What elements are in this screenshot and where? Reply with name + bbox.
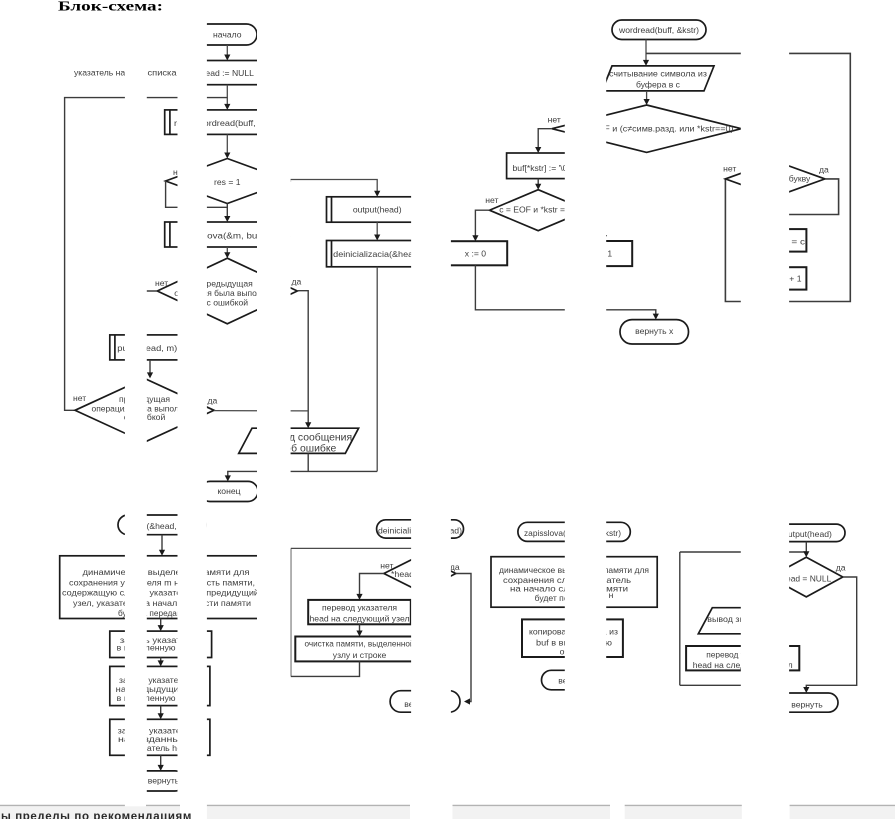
io parallelogram считывание символа: [602, 66, 714, 91]
wire oval down: [645, 40, 647, 63]
wire -> B1: [160, 619, 162, 629]
decision diamond4: [75, 378, 214, 442]
loop top horizontal D5: [680, 551, 807, 553]
wire +1 box -> return loop (hidden): [776, 290, 778, 302]
big process box D3: [491, 557, 657, 608]
wire box2 -> res diamond: [226, 134, 228, 155]
svg-text:deinicializacia(&head): deinicializacia(&head): [333, 249, 421, 259]
нет wire diamond2 -> push box (elbow hidden): [130, 291, 157, 332]
arrowheads: [127, 55, 810, 771]
да loop букву -> = c box: [777, 179, 839, 226]
да wire res -> output box: [289, 180, 377, 194]
svg-text:сохранения указателя m на обла: сохранения указателя m на область памяти…: [69, 578, 255, 588]
нет wire res diamond left: [166, 181, 228, 207]
join wire to конец: [228, 471, 377, 478]
wire parallelogram down: [307, 453, 309, 471]
stripe S5: [565, 18, 606, 806]
call box deinicializacia(&head): [327, 241, 428, 267]
svg-text:букву: букву: [789, 174, 811, 184]
нет wire -> box1: [360, 574, 384, 597]
stripe S2: [178, 18, 207, 806]
wire start->box1: [226, 45, 228, 57]
call box res = wordread: [165, 110, 288, 134]
call box output(head): [327, 197, 428, 222]
loop wire from diamond4 нет: up left side: [65, 98, 228, 411]
decision букву: [725, 161, 825, 197]
decision diamond2 предыдущая операция: [157, 258, 297, 324]
svg-text:очистка памяти, выделенной: очистка памяти, выделенной: [305, 639, 415, 649]
нет wire big diamond -> buf box: [538, 129, 552, 150]
decision c = EOF: [490, 190, 588, 231]
process box перевод head D5: [686, 646, 799, 670]
svg-text:узел, указатель на начало обла: узел, указатель на начало области памяти: [73, 598, 251, 608]
svg-text:нет: нет: [73, 393, 86, 403]
process box head := NULL: [190, 61, 265, 85]
decision res = 1: [166, 159, 289, 204]
big return loop right side: [646, 53, 850, 301]
terminator вернуть D5: [776, 693, 838, 712]
terminator output(head): [770, 524, 845, 542]
wire -> B3: [160, 706, 162, 717]
svg-text:output(head): output(head): [783, 529, 832, 539]
long vertical from deinicializacia down: [376, 267, 378, 472]
terminator zapis(&head, m): [118, 515, 206, 535]
да wire c=EOF -> x:=1 (hidden): [587, 210, 604, 241]
svg-text:об ошибке: об ошибке: [285, 443, 336, 455]
да wire -> вернуть: [456, 574, 471, 702]
svg-text:начало: начало: [213, 30, 242, 40]
left loop vertical D2: [290, 548, 292, 676]
terminator вернуть D2: [390, 691, 460, 713]
svg-text:x := 0: x := 0: [465, 249, 486, 259]
process box копирование: [522, 619, 623, 657]
io parallelogram вывод значения: [698, 608, 782, 634]
process box B3: [110, 719, 210, 755]
terminator вернуть D3: [542, 670, 605, 690]
wire oval->diamond (hidden): [419, 538, 421, 553]
decision head = NULL: [770, 557, 843, 597]
process box B2: [110, 666, 210, 705]
wire output -> deinicializacia: [376, 222, 378, 237]
big decision diamond: [552, 105, 741, 152]
svg-text:н: н: [609, 590, 614, 600]
svg-text:head на следующий узел: head на следующий узел: [310, 614, 410, 624]
process box kstr + 1: [748, 267, 807, 289]
нет wire D5 (hidden): [743, 577, 770, 605]
svg-text:да: да: [292, 277, 302, 287]
terminator zapisslova(&m, buf, &kstr): [518, 522, 630, 541]
wire =c -> +1 box (hidden): [776, 252, 778, 264]
process box x := 1: [576, 241, 632, 266]
svg-text:нет: нет: [548, 115, 561, 125]
wire -> вернуть: [160, 755, 162, 768]
stripe S4: [411, 18, 451, 806]
svg-text:динамическое выделение памяти: динамическое выделение памяти для: [83, 567, 250, 577]
svg-text:да: да: [836, 563, 846, 573]
wire box1 down through join: [226, 85, 228, 107]
loop left vertical D5: [679, 552, 681, 685]
process box buf = c: [748, 229, 807, 252]
svg-text:output(head): output(head): [353, 205, 402, 215]
svg-text:нет: нет: [723, 164, 736, 174]
wire parallelogram -> big diamond: [646, 91, 648, 102]
svg-text:да: да: [819, 165, 829, 175]
loop bottom D2: [291, 661, 360, 676]
svg-text:вернуть x: вернуть x: [635, 326, 674, 336]
svg-text:нет: нет: [380, 561, 393, 571]
stripe S1: [125, 18, 147, 806]
svg-text:нет: нет: [155, 278, 168, 288]
wire ->box (hidden): [742, 634, 744, 643]
да wire diamond2 -> down to parallelogram: [297, 291, 308, 423]
svg-text:да: да: [450, 562, 460, 572]
svg-text:считывание символа из: считывание символа из: [609, 69, 707, 79]
wire box1->box2: [359, 624, 361, 633]
call box push(head, m): [110, 335, 195, 360]
loop bottom D5: [680, 670, 743, 685]
terminator вернуть x: [620, 320, 689, 344]
svg-text:нет: нет: [485, 195, 498, 205]
svg-text:вернуть: вернуть: [148, 776, 180, 786]
output parallelogram вывод сообщения об ошибке: [239, 428, 359, 453]
да wire diamond4 -> right: [214, 410, 308, 412]
svg-text:перевод указателя: перевод указателя: [322, 603, 397, 613]
wire ->box2 (hidden): [573, 607, 575, 616]
svg-text:да: да: [208, 396, 218, 406]
svg-text:конец: конец: [217, 486, 240, 496]
terminator wordread(buff, &kstr): [612, 20, 706, 40]
svg-text:указатель на: указатель на: [74, 68, 125, 78]
stripe S6: [741, 18, 789, 806]
process box B1: [110, 631, 212, 657]
wire push -> diamond4: [149, 360, 151, 376]
svg-text:Блок-схема:: Блок-схема:: [58, 0, 163, 14]
decision *head != NULL: [384, 556, 456, 592]
svg-text:wordread(buff, &kstr): wordread(buff, &kstr): [618, 25, 699, 35]
svg-text:buf[*kstr] := '\0': buf[*kstr] := '\0': [513, 163, 570, 173]
svg-text:буфера в с: буфера в с: [636, 80, 681, 90]
svg-text:содержащую слово, указатель на: содержащую слово, указатель на предидущи…: [62, 588, 259, 598]
process box очистка памяти: [295, 637, 423, 662]
wire buf -> c=EOF diamond: [537, 179, 539, 187]
да wire D5: [806, 577, 856, 690]
process box buf[*kstr]: [507, 153, 575, 179]
svg-text:с ошибкой: с ошибкой: [207, 298, 249, 308]
merge wires to вернуть x: [475, 265, 655, 316]
loop top line D2: [291, 547, 420, 549]
wire zapisslova -> diamond2: [226, 247, 228, 255]
terminator oval "начало": [197, 24, 257, 45]
wire oval -> big box: [161, 535, 163, 553]
wire oval->diamond: [805, 542, 807, 554]
svg-text:списка: списка: [148, 68, 177, 78]
svg-text:вернуть: вернуть: [791, 700, 823, 710]
call box zapisslova: [165, 222, 288, 247]
big process box D1: [60, 556, 265, 619]
нет wire c=EOF -> x:=0: [475, 210, 489, 237]
terminator deinicializacia(&head): [377, 520, 464, 538]
wire -> B2: [160, 658, 162, 664]
process box перевод указателя: [308, 600, 411, 624]
terminator вернуть D1: [137, 771, 185, 791]
svg-text:предыдущая: предыдущая: [202, 279, 253, 289]
terminator конец: [200, 481, 258, 501]
process box x := 0: [444, 241, 508, 265]
svg-text:res = 1: res = 1: [214, 177, 241, 187]
wire oval->box (hidden): [573, 541, 575, 553]
wire ->вернуть (hidden): [573, 657, 575, 667]
wire res bottom + нет join -> zapisslova: [226, 204, 228, 218]
svg-text:узлу и строке: узлу и строке: [333, 650, 387, 660]
stripe S3: [257, 18, 291, 806]
svg-text:head := NULL: head := NULL: [201, 68, 254, 78]
